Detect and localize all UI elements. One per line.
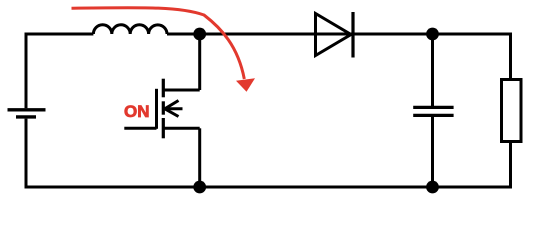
diode D1: cathode bar bbox=[351, 12, 354, 58]
wire: capacitor top lead bbox=[431, 34, 434, 106]
node D: bottom rail below capacitor bbox=[426, 181, 439, 194]
resistor R1 (load, rectangle) bbox=[502, 80, 522, 142]
node C: output node (diode cathode / capacitor top) bbox=[426, 28, 439, 41]
battery V1 negative plate (short) bbox=[16, 115, 36, 118]
wire: MOSFET source vertical down to bottom rail bbox=[198, 128, 201, 187]
transistor Q1: channel bottom segment bbox=[162, 118, 165, 138]
battery V1 positive plate (long) bbox=[8, 108, 46, 111]
inductor L1 (4 humps) bbox=[93, 25, 167, 34]
node B: bottom rail below MOSFET bbox=[193, 181, 206, 194]
transistor Q1: gate lead stub bbox=[124, 127, 156, 130]
red arrowhead bbox=[236, 78, 255, 92]
diode D1: anode triangle bbox=[316, 14, 352, 56]
capacitor C1: bottom plate bbox=[413, 114, 453, 117]
capacitor C1: top plate bbox=[413, 106, 453, 109]
wire: MOSFET drain tap bbox=[163, 89, 199, 92]
transistor Q1: channel top segment bbox=[162, 79, 165, 98]
wire: MOSFET drain vertical from node A bbox=[198, 34, 201, 90]
wire: MOSFET source tap bbox=[163, 127, 199, 130]
wire: battery negative down, bottom rail, up right side to resistor bottom bbox=[26, 119, 511, 187]
wire: capacitor bottom lead bbox=[431, 117, 434, 187]
svg-text:ON: ON bbox=[124, 102, 150, 121]
wire: top rail from inductor to top-right corner, down to resistor top bbox=[167, 34, 511, 80]
wire: left side from top-left corner to battery positive plate bbox=[26, 34, 93, 108]
transistor Q1: gate bar bbox=[155, 89, 158, 129]
transistor Q1: channel middle segment bbox=[162, 101, 165, 114]
node A: switch node (inductor/diode/MOSFET drain) bbox=[193, 28, 206, 41]
red current-flow curve bbox=[72, 8, 245, 79]
transistor Q1: body arrow (points into channel) bbox=[165, 101, 183, 117]
